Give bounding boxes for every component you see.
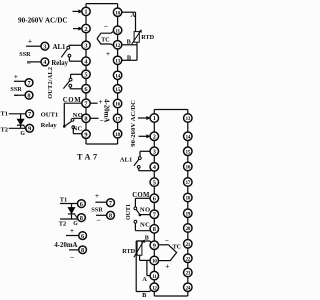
svg-text:−: − xyxy=(104,22,108,30)
svg-text:9: 9 xyxy=(153,242,156,249)
svg-text:8: 8 xyxy=(81,247,84,254)
svg-text:A: A xyxy=(131,12,136,19)
svg-text:NC: NC xyxy=(73,126,83,133)
svg-text:24: 24 xyxy=(185,285,190,291)
svg-text:8: 8 xyxy=(153,226,156,233)
svg-text:+: + xyxy=(14,72,18,81)
svg-text:B: B xyxy=(142,292,147,299)
svg-text:13: 13 xyxy=(185,116,190,122)
svg-text:8: 8 xyxy=(84,116,87,123)
svg-text:12: 12 xyxy=(115,43,120,49)
svg-text:20: 20 xyxy=(185,226,190,232)
svg-text:T1: T1 xyxy=(60,197,67,204)
svg-text:−: − xyxy=(99,117,103,125)
svg-text:+: + xyxy=(95,191,99,200)
svg-text:RTD: RTD xyxy=(141,34,154,41)
svg-text:18: 18 xyxy=(185,196,190,202)
svg-text:T2: T2 xyxy=(59,221,66,228)
svg-text:T1: T1 xyxy=(1,111,8,118)
svg-text:OUT1: OUT1 xyxy=(126,204,132,220)
svg-text:5: 5 xyxy=(84,72,87,79)
svg-text:+: + xyxy=(98,97,102,106)
svg-text:10: 10 xyxy=(115,10,120,16)
svg-text:G: G xyxy=(20,131,25,137)
svg-text:10: 10 xyxy=(152,259,157,265)
svg-text:8: 8 xyxy=(80,215,83,222)
svg-text:−: − xyxy=(70,254,74,262)
svg-text:AL1: AL1 xyxy=(53,44,66,51)
svg-text:3: 3 xyxy=(43,43,46,50)
svg-text:B: B xyxy=(127,39,131,46)
svg-text:17: 17 xyxy=(185,180,190,186)
svg-text:15: 15 xyxy=(115,87,120,93)
svg-text:AL1: AL1 xyxy=(120,157,132,164)
svg-text:11: 11 xyxy=(152,274,157,280)
svg-text:A: A xyxy=(142,276,147,283)
svg-text:14: 14 xyxy=(185,135,190,141)
svg-text:TA7: TA7 xyxy=(77,152,100,161)
svg-text:2: 2 xyxy=(84,26,87,33)
svg-text:9: 9 xyxy=(28,126,31,133)
svg-text:16: 16 xyxy=(115,102,120,108)
svg-text:9: 9 xyxy=(84,131,87,138)
svg-text:11: 11 xyxy=(115,28,120,34)
svg-text:5: 5 xyxy=(153,179,156,186)
svg-text:B: B xyxy=(145,236,149,242)
svg-text:22: 22 xyxy=(185,257,190,263)
svg-text:−: − xyxy=(96,216,100,225)
svg-text:Relay: Relay xyxy=(51,60,68,67)
svg-text:+: + xyxy=(28,37,32,46)
svg-text:1: 1 xyxy=(84,9,87,16)
svg-text:OUT1: OUT1 xyxy=(41,111,59,118)
svg-text:1: 1 xyxy=(153,115,156,122)
svg-text:+: + xyxy=(106,49,110,58)
svg-text:T2: T2 xyxy=(1,127,8,134)
svg-text:23: 23 xyxy=(185,271,190,277)
svg-text:NC: NC xyxy=(140,222,150,229)
svg-text:4-20mA: 4-20mA xyxy=(54,242,77,249)
svg-text:2: 2 xyxy=(153,134,156,141)
svg-text:15: 15 xyxy=(185,150,190,156)
svg-text:+: + xyxy=(70,226,74,235)
svg-text:12: 12 xyxy=(152,286,157,292)
svg-text:RTD: RTD xyxy=(122,248,135,255)
svg-text:90-260V AC/DC: 90-260V AC/DC xyxy=(18,17,68,25)
svg-text:13: 13 xyxy=(115,59,120,65)
svg-text:TC: TC xyxy=(173,244,181,250)
svg-text:21: 21 xyxy=(185,242,190,248)
svg-text:+: + xyxy=(165,261,169,270)
svg-text:3: 3 xyxy=(84,43,87,50)
svg-text:8: 8 xyxy=(109,213,112,220)
svg-text:16: 16 xyxy=(185,165,190,171)
svg-text:SSR: SSR xyxy=(91,207,103,214)
svg-text:NO: NO xyxy=(140,207,151,214)
svg-text:−: − xyxy=(14,91,18,100)
svg-text:17: 17 xyxy=(115,117,120,123)
svg-text:SSR: SSR xyxy=(19,51,31,58)
svg-text:19: 19 xyxy=(185,211,190,217)
svg-text:14: 14 xyxy=(115,74,120,80)
svg-text:Relay: Relay xyxy=(41,122,58,129)
svg-text:18: 18 xyxy=(115,132,120,138)
svg-text:TC: TC xyxy=(101,38,109,44)
svg-text:B: B xyxy=(127,54,131,61)
svg-text:90-260V AC/DC: 90-260V AC/DC xyxy=(130,100,137,147)
svg-text:3: 3 xyxy=(153,149,156,156)
svg-text:OUT2/AL2: OUT2/AL2 xyxy=(47,67,54,99)
svg-text:−: − xyxy=(27,59,31,68)
svg-text:8: 8 xyxy=(27,92,30,99)
svg-text:−: − xyxy=(165,238,169,245)
